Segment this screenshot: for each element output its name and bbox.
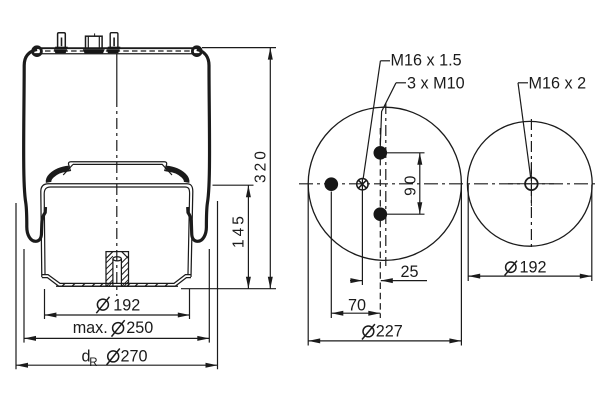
M10 stud hole lower (filled) (374, 207, 388, 221)
leader 3xM10 (380, 83, 406, 146)
crosshair solid segs (508, 162, 554, 206)
extension line 145 top (213, 184, 254, 186)
leader M16x1.5 (363, 61, 390, 179)
svg-text:R: R (89, 357, 97, 369)
vertical centerline middle circle (385, 103, 387, 266)
piston bottom dish plate (42, 275, 191, 287)
dimension 90 (387, 153, 425, 214)
dish hatch ticks (62, 283, 168, 286)
dimension 320 (268, 48, 273, 289)
extension line top (from plate) (202, 47, 276, 49)
dimension max phi250 (24, 249, 209, 343)
svg-text:M16 x 2: M16 x 2 (529, 75, 587, 93)
dimension phi227 (308, 185, 461, 346)
bellows clamp lump left (49, 168, 69, 182)
boss hatching (106, 256, 129, 287)
dimension 145 (246, 185, 251, 289)
label phi192 (96, 297, 140, 315)
stud M10 (right, on centerline) (106, 33, 120, 54)
svg-text:192: 192 (520, 259, 547, 277)
top bead plate (33, 48, 201, 54)
svg-text:227: 227 (376, 323, 403, 341)
hidden stud line (379, 128, 381, 318)
label max phi250 (73, 319, 154, 337)
air fitting block M16x1.5 (83, 33, 105, 53)
extension line bottom (piston base) (181, 288, 276, 290)
svg-text:3 x M10: 3 x M10 (407, 75, 465, 93)
leader M16x2 (518, 83, 531, 177)
bead plate circle (308, 107, 461, 260)
dimension phi192 (piston plan) (468, 185, 592, 282)
bellows outline left (thick, rolling lobe U-turn) (24, 50, 46, 242)
label dR phi270 (82, 348, 148, 369)
piston crown platform (63, 162, 172, 175)
bellows outline right (thick, rolling lobe U-turn) (188, 50, 210, 242)
central boss with bolt hole (106, 252, 129, 287)
plate rolled bead left (33, 47, 42, 56)
svg-text:192: 192 (113, 297, 140, 315)
svg-text:M16 x 1.5: M16 x 1.5 (391, 51, 462, 69)
svg-text:270: 270 (121, 348, 148, 366)
dimension phi192 (piston) (44, 289, 189, 319)
central thread hole M16x2 (525, 178, 538, 191)
svg-text:145: 145 (231, 213, 248, 248)
plate rolled bead right (192, 47, 201, 56)
label phi192 right (505, 259, 547, 277)
bellows clamp lump right (166, 168, 186, 182)
svg-text:max.: max. (73, 319, 108, 337)
svg-text:320: 320 (253, 148, 270, 183)
svg-text:90: 90 (402, 173, 419, 196)
dimension dR phi270 (16, 201, 218, 369)
air inlet M16x1.5 symbol (357, 179, 368, 190)
piston circle (467, 121, 592, 246)
svg-text:70: 70 (348, 296, 366, 314)
dimension 25 (350, 179, 427, 285)
dimension 70 (331, 192, 380, 319)
stud M10 (left) (54, 33, 68, 54)
svg-text:25: 25 (401, 263, 419, 281)
label phi227 (362, 323, 403, 341)
horizontal centerline across both plan views (299, 183, 598, 185)
M10 stud hole left (filled) (325, 177, 339, 191)
vertical centerline of side view (116, 54, 118, 296)
vertical centerline right circle (530, 119, 532, 249)
svg-text:250: 250 (126, 319, 153, 337)
M10 stud hole upper (filled) (374, 146, 388, 160)
piston body outline (41, 184, 193, 277)
